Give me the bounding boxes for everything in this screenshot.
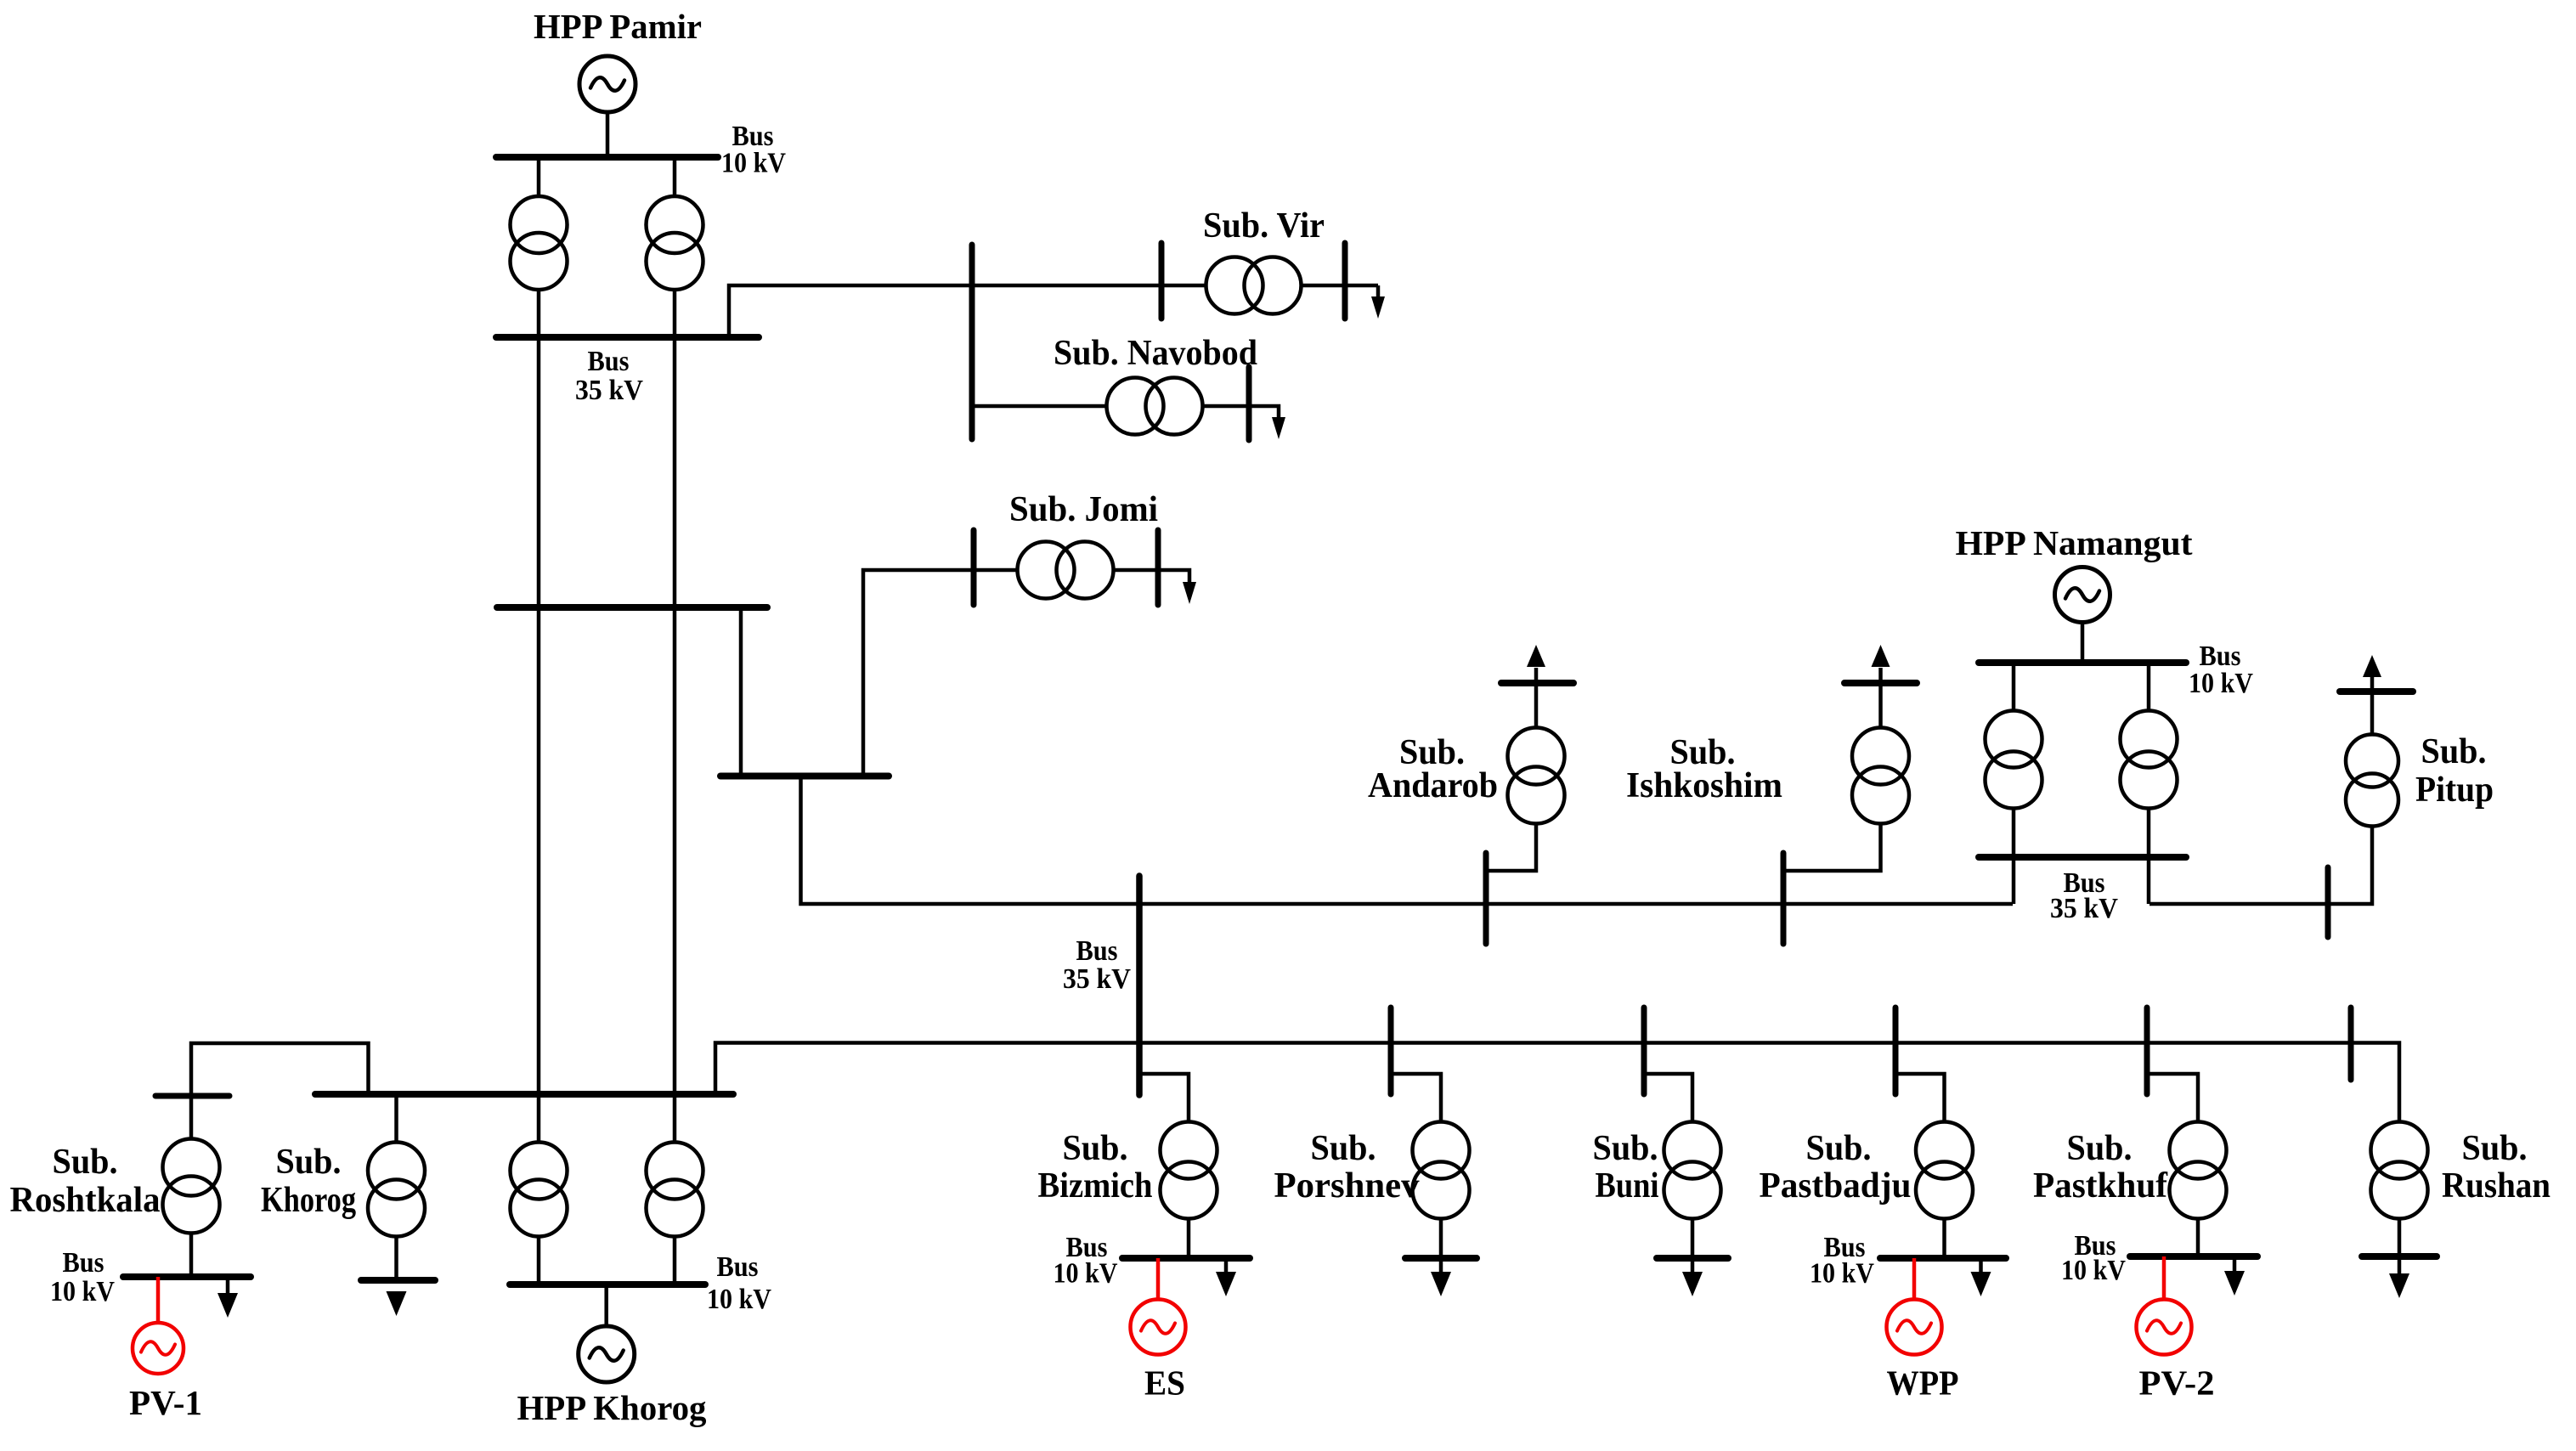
bus bar vertical 35 kV [1136, 876, 1143, 1095]
label Bus 10 kV (Pastkhuf) [2061, 1230, 2126, 1286]
bus Namangut 35 kV [1979, 854, 2186, 861]
wire generator lead [606, 110, 610, 157]
wire transformer T1 feeder [537, 157, 541, 337]
up arrow Sub. Ishkoshim [1872, 645, 1890, 667]
bus 35 kV bottom left [315, 1091, 733, 1098]
load arrow Sub. Bizmich [1216, 1258, 1236, 1296]
wire Sub. Khorog feeder [394, 1094, 398, 1280]
label WPP [1887, 1363, 1959, 1403]
bus Pastkhuf 10 kV [2130, 1253, 2257, 1260]
svg-text:10 kV: 10 kV [50, 1276, 115, 1307]
svg-text:Bus: Bus [1076, 935, 1118, 967]
tick bar Vir right [1342, 243, 1348, 319]
transformer Sub. Ishkoshim [1852, 728, 1909, 824]
wire PV-1 lead [156, 1277, 161, 1324]
tick bar Buni [1641, 1008, 1647, 1094]
bus Porshnev 10 kV [1405, 1255, 1477, 1262]
svg-text:HPP Pamir: HPP Pamir [534, 7, 702, 46]
label Bus 10 kV (Pastbadju) [1810, 1232, 1874, 1290]
svg-text:Sub.: Sub. [276, 1143, 342, 1182]
svg-text:Sub.: Sub. [2067, 1129, 2133, 1168]
svg-text:HPP Khorog: HPP Khorog [517, 1388, 707, 1427]
wire to Vir feeder line [729, 285, 1378, 337]
svg-text:Sub.: Sub. [2421, 732, 2487, 771]
bus Roshtkala 10 kV [123, 1273, 251, 1280]
svg-text:Sub. Vir: Sub. Vir [1203, 206, 1325, 246]
svg-text:35 kV: 35 kV [1063, 963, 1131, 995]
wire Namangut transformer right leg [2147, 663, 2151, 904]
tick bar Vir left [1159, 243, 1165, 319]
svg-text:Sub. Navobod: Sub. Navobod [1054, 334, 1257, 373]
svg-text:Sub.: Sub. [2462, 1129, 2528, 1168]
label ES [1144, 1363, 1185, 1403]
label Bus 35 kV (Namangut) [2050, 867, 2118, 924]
svg-text:10 kV: 10 kV [2189, 668, 2253, 699]
svg-text:Bizmich: Bizmich [1038, 1166, 1153, 1205]
tick bar Ishkoshim [1781, 853, 1787, 944]
generator G HPP Khorog [579, 1326, 635, 1382]
label Bus 10 kV (Namangut) [2189, 641, 2253, 699]
transformer Namangut left [1986, 711, 2042, 809]
bus Pamir 35 kV [496, 334, 759, 341]
wire Navobod feeder [972, 406, 1279, 418]
tick bar Pitup [2325, 867, 2331, 937]
label PV-2 [2139, 1363, 2215, 1403]
svg-text:10 kV: 10 kV [707, 1284, 771, 1315]
label Sub. Khorog [261, 1143, 356, 1220]
svg-text:Ishkoshim: Ishkoshim [1626, 766, 1782, 805]
label Bus 10 kV (Bizmich) [1054, 1232, 1118, 1290]
bus Rushan 10 kV [2362, 1253, 2437, 1260]
bus intermediate 35 kV lower [720, 773, 889, 780]
bus Sub. Khorog 10 kV [361, 1277, 435, 1284]
tick bar Andarob [1483, 853, 1489, 944]
transformer T1 (HPP Pamir left) [511, 196, 568, 290]
svg-text:Pitup: Pitup [2415, 771, 2494, 810]
label Sub. Pastkhuf [2033, 1129, 2168, 1205]
wire Pastbadju feeder [1895, 1074, 1945, 1258]
svg-text:Sub.: Sub. [53, 1143, 118, 1182]
svg-text:10 kV: 10 kV [721, 148, 786, 179]
tick bar Pastkhuf [2144, 1008, 2150, 1094]
label Sub. Roshtkala [10, 1143, 161, 1220]
bus HPP Khorog 10 kV [510, 1281, 705, 1288]
label Sub. Porshnev [1274, 1129, 1420, 1205]
label Bus 35 kV (vertical bar) [1063, 935, 1131, 995]
load arrow Sub. Buni [1682, 1258, 1703, 1296]
transformer Sub. Vir [1206, 257, 1302, 314]
wire Namangut transformer left leg [2012, 663, 2016, 904]
label Sub. Pitup [2415, 732, 2494, 810]
wire Jomi feeder [863, 570, 1189, 776]
label Sub. Vir [1203, 206, 1325, 246]
transformer Sub. Jomi [1018, 542, 1114, 599]
svg-text:Sub.: Sub. [1593, 1129, 1658, 1168]
svg-text:Buni: Buni [1596, 1166, 1659, 1205]
svg-text:Bus: Bus [63, 1247, 105, 1279]
wire Roshtkala branch [191, 1043, 369, 1277]
bus bar Vir-Navobod feeder [969, 245, 975, 439]
wire Andarob feeder [1486, 668, 1536, 871]
wire ES lead [1156, 1258, 1161, 1301]
transformer Sub. Pastkhuf [2170, 1122, 2227, 1219]
wire Namangut generator lead [2081, 620, 2085, 663]
label HPP Namangut [1956, 523, 2193, 562]
svg-text:Rushan: Rushan [2442, 1166, 2551, 1205]
transformer Sub. Bizmich [1161, 1122, 1217, 1219]
wire WPP lead [1912, 1258, 1917, 1301]
svg-text:Pastkhuf: Pastkhuf [2033, 1166, 2168, 1205]
tick bar Rushan [2348, 1008, 2354, 1080]
bus Pitup 0.4 kV [2340, 688, 2413, 695]
load arrow Sub. Rushan [2389, 1256, 2409, 1298]
load arrow Sub. Vir [1371, 285, 1385, 319]
tick bus Roshtkala [155, 1093, 229, 1099]
generator PV-2 [2137, 1300, 2192, 1355]
transformer Sub. Porshnev [1413, 1122, 1470, 1219]
generator WPP [1887, 1300, 1942, 1355]
tick bar Jomi left [971, 530, 977, 605]
generator G HPP Pamir [579, 56, 636, 112]
label Bus 35 kV (Pamir) [575, 346, 643, 406]
svg-text:ES: ES [1144, 1363, 1185, 1403]
svg-text:WPP: WPP [1887, 1363, 1959, 1403]
svg-text:Andarob: Andarob [1368, 766, 1498, 805]
svg-text:PV-1: PV-1 [129, 1383, 202, 1422]
label Bus 10 kV (HPP Khorog) [707, 1251, 771, 1315]
bus intermediate 35 kV upper [497, 604, 767, 611]
up arrow Sub. Pitup [2363, 655, 2381, 677]
label Sub. Buni [1593, 1129, 1659, 1205]
bus Andarob 0.4 kV [1501, 680, 1573, 686]
up arrow Sub. Andarob [1527, 645, 1545, 667]
svg-text:Bus: Bus [588, 346, 630, 377]
tick bar Jomi right [1155, 530, 1161, 605]
transformer Sub. Roshtkala [163, 1139, 220, 1234]
label Sub. Rushan [2442, 1129, 2551, 1205]
wire Bizmich feeder [1139, 1074, 1189, 1258]
wire lower 35 kV line [715, 1043, 2399, 1259]
bus Ishkoshim 0.4 kV [1844, 680, 1917, 686]
svg-text:10 kV: 10 kV [2061, 1255, 2126, 1286]
transformer T2 (HPP Pamir right) [647, 196, 703, 290]
transformer Sub. Buni [1664, 1122, 1721, 1219]
svg-text:35 kV: 35 kV [2050, 893, 2118, 924]
wire Ishkoshim feeder [1783, 668, 1881, 871]
load arrow Sub. Roshtkala [217, 1277, 238, 1318]
bus Pastbadju 10 kV [1880, 1255, 2006, 1262]
generator ES [1131, 1300, 1186, 1355]
transformer Sub. Navobod [1107, 378, 1203, 435]
generator HPP Pamir label [534, 7, 702, 46]
tick bar Porshnev [1388, 1008, 1394, 1094]
tick bar Navobod right [1246, 367, 1252, 440]
load arrow Sub. Porshnev [1431, 1258, 1451, 1296]
wire corner to long 35kV bus [801, 776, 2014, 904]
label Sub. Andarob [1368, 733, 1498, 805]
svg-text:Sub.: Sub. [1311, 1129, 1376, 1168]
svg-text:35 kV: 35 kV [575, 375, 643, 406]
transformer Sub. Khorog [368, 1143, 425, 1237]
svg-text:Porshnev: Porshnev [1274, 1166, 1420, 1205]
tick bar Pastbadju [1893, 1008, 1899, 1094]
bus Namangut 10 kV [1979, 659, 2186, 666]
svg-text:Roshtkala: Roshtkala [10, 1181, 161, 1220]
label PV-1 [129, 1383, 202, 1422]
wire bus1-bus2 jog [739, 607, 743, 776]
svg-text:Sub. Jomi: Sub. Jomi [1009, 490, 1158, 529]
label Sub. Bizmich [1038, 1129, 1153, 1205]
svg-text:10 kV: 10 kV [1054, 1258, 1118, 1290]
wire long bus right segment and Pitup feeder [2149, 666, 2372, 904]
label Bus 10 kV (Pamir) [721, 121, 786, 179]
svg-text:Sub.: Sub. [1063, 1129, 1128, 1168]
wire Pastkhuf feeder [2147, 1074, 2198, 1256]
svg-text:HPP Namangut: HPP Namangut [1956, 523, 2193, 562]
bus Pamir 10 kV [496, 154, 718, 161]
transformer HPP Khorog left [511, 1143, 568, 1237]
transformer HPP Khorog right [647, 1143, 703, 1237]
wire PV-2 lead [2162, 1256, 2166, 1301]
svg-text:PV-2: PV-2 [2139, 1363, 2215, 1403]
wire long vertical left (Pamir to Khorog) [537, 337, 541, 1284]
generator PV-1 [133, 1323, 184, 1374]
svg-text:Khorog: Khorog [261, 1181, 356, 1220]
svg-text:Bus: Bus [717, 1251, 759, 1283]
load arrow Sub. Khorog [387, 1291, 407, 1316]
load arrow Sub. Pastkhuf [2224, 1256, 2245, 1296]
svg-text:10 kV: 10 kV [1810, 1258, 1874, 1290]
svg-text:Pastbadju: Pastbadju [1760, 1166, 1912, 1205]
transformer Sub. Andarob [1508, 728, 1565, 824]
label Sub. Ishkoshim [1626, 733, 1782, 805]
wire transformer T2 feeder [673, 157, 677, 337]
load arrow Sub. Jomi [1183, 582, 1196, 604]
wire Buni feeder [1644, 1074, 1692, 1258]
bus Buni 10 kV [1657, 1255, 1728, 1262]
transformer Sub. Rushan [2371, 1122, 2428, 1219]
label Sub. Pastbadju [1760, 1129, 1912, 1205]
bus Bizmich 10 kV [1122, 1255, 1250, 1262]
generator G HPP Namangut [2055, 567, 2110, 623]
wire long vertical right (Pamir to Khorog) [673, 337, 677, 1284]
load arrow Sub. Navobod [1272, 417, 1285, 439]
label Bus 10 kV (Roshtkala) [50, 1247, 115, 1307]
load arrow Sub. Pastbadju [1971, 1258, 1991, 1296]
svg-text:Sub.: Sub. [1806, 1129, 1872, 1168]
transformer Sub. Pastbadju [1916, 1122, 1973, 1219]
wire HPP Khorog generator lead [604, 1284, 608, 1330]
transformer Namangut right [2121, 711, 2178, 809]
label HPP Khorog [517, 1388, 707, 1427]
label Sub. Navobod [1054, 334, 1257, 373]
label Sub. Jomi [1009, 490, 1158, 529]
wire Porshnev feeder [1391, 1074, 1441, 1258]
transformer Sub. Pitup [2346, 735, 2398, 827]
